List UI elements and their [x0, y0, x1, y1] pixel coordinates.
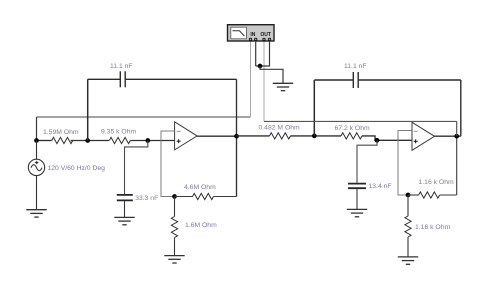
node gain1 dot — [172, 194, 177, 199]
svg-text:4.6M Ohm: 4.6M Ohm — [184, 184, 216, 191]
capacitor 13.4nF — [348, 184, 366, 189]
svg-text:33.3 nF: 33.3 nF — [135, 195, 158, 202]
resistor 9.35k — [109, 137, 130, 143]
svg-text:67.2 k Ohm: 67.2 k Ohm — [335, 125, 370, 132]
capacitor 11.1nF stage2 — [314, 72, 461, 136]
node A dot — [85, 138, 90, 143]
terminal OUT+ — [263, 38, 265, 40]
wire U2 inverting input — [398, 131, 412, 196]
svg-text:0.482 M Ohm: 0.482 M Ohm — [259, 125, 301, 132]
node gain2 dot — [406, 193, 411, 198]
node Bode ground dot — [258, 64, 263, 69]
ground cap 33.3nF — [114, 217, 134, 224]
capacitor 11.1nF stage1 — [88, 71, 237, 87]
wire jog node D to cap 13.4nF — [357, 140, 377, 182]
svg-text:1.16 k Ohm: 1.16 k Ohm — [415, 224, 450, 231]
wire cap 33.3nF to ground — [124, 201, 126, 217]
node B dot — [145, 138, 150, 143]
wire jog node B to cap 33.3nF — [125, 141, 148, 195]
ground cap 13.4nF — [347, 209, 367, 216]
wire main row stage1 — [37, 140, 175, 142]
svg-text:9.35 k Ohm: 9.35 k Ohm — [101, 129, 136, 136]
Bode plotter XBP1 — [228, 25, 275, 41]
wire cap 13.4nF to ground — [356, 189, 358, 210]
resistor 0.482M — [270, 133, 291, 139]
terminal IN- — [255, 38, 257, 40]
node D dot — [375, 138, 380, 143]
terminal IN+ — [249, 38, 251, 40]
node C dot — [312, 134, 317, 139]
ground 1.6M — [164, 256, 184, 263]
op-amp U2 — [412, 122, 435, 150]
svg-text:OUT: OUT — [260, 32, 271, 38]
wire main row stage2 — [237, 136, 413, 140]
svg-text:1.59M Ohm: 1.59M Ohm — [43, 129, 79, 136]
svg-text:13.4 nF: 13.4 nF — [369, 183, 392, 190]
resistor 1.59M — [52, 137, 73, 143]
wire Bode ground — [260, 66, 283, 83]
wire Bode OUT+ rail — [264, 41, 457, 136]
svg-text:1.16 k Ohm: 1.16 k Ohm — [419, 179, 454, 186]
resistor 1.16k to ground — [407, 195, 409, 257]
wire node A up — [87, 79, 89, 140]
resistor 67.2k — [341, 133, 362, 139]
wire U2 output — [435, 135, 461, 137]
node input dot — [34, 138, 39, 143]
wire output column stage1 — [236, 79, 238, 196]
node output1 dot — [234, 134, 239, 139]
wire Bode OUT- — [256, 41, 270, 66]
resistor 4.6M feedback — [175, 196, 237, 198]
capacitor 33.3nF — [117, 195, 133, 201]
wire node C up — [313, 80, 315, 136]
AC source V1 — [28, 141, 44, 210]
svg-text:11.1 nF: 11.1 nF — [110, 63, 133, 70]
resistor 1.16k feedback — [408, 136, 457, 195]
svg-text:11.1 nF: 11.1 nF — [344, 63, 367, 70]
ground 1.16k — [398, 257, 418, 264]
svg-text:120 V/60 Hz/0 Deg: 120 V/60 Hz/0 Deg — [48, 165, 106, 172]
resistor 1.6M to ground — [174, 197, 176, 256]
wire Bode IN- — [255, 41, 257, 66]
svg-text:IN: IN — [250, 32, 255, 38]
wire U1 inverting input — [161, 131, 175, 197]
node output2 dot — [454, 134, 459, 139]
ground source — [26, 210, 46, 217]
terminal OUT- — [268, 38, 270, 40]
op-amp U1 — [175, 122, 198, 150]
wire Bode IN+ rail — [37, 41, 251, 141]
svg-text:1.6M Ohm: 1.6M Ohm — [185, 222, 217, 229]
ground Bode — [273, 83, 293, 90]
wire U1 output — [197, 135, 236, 137]
